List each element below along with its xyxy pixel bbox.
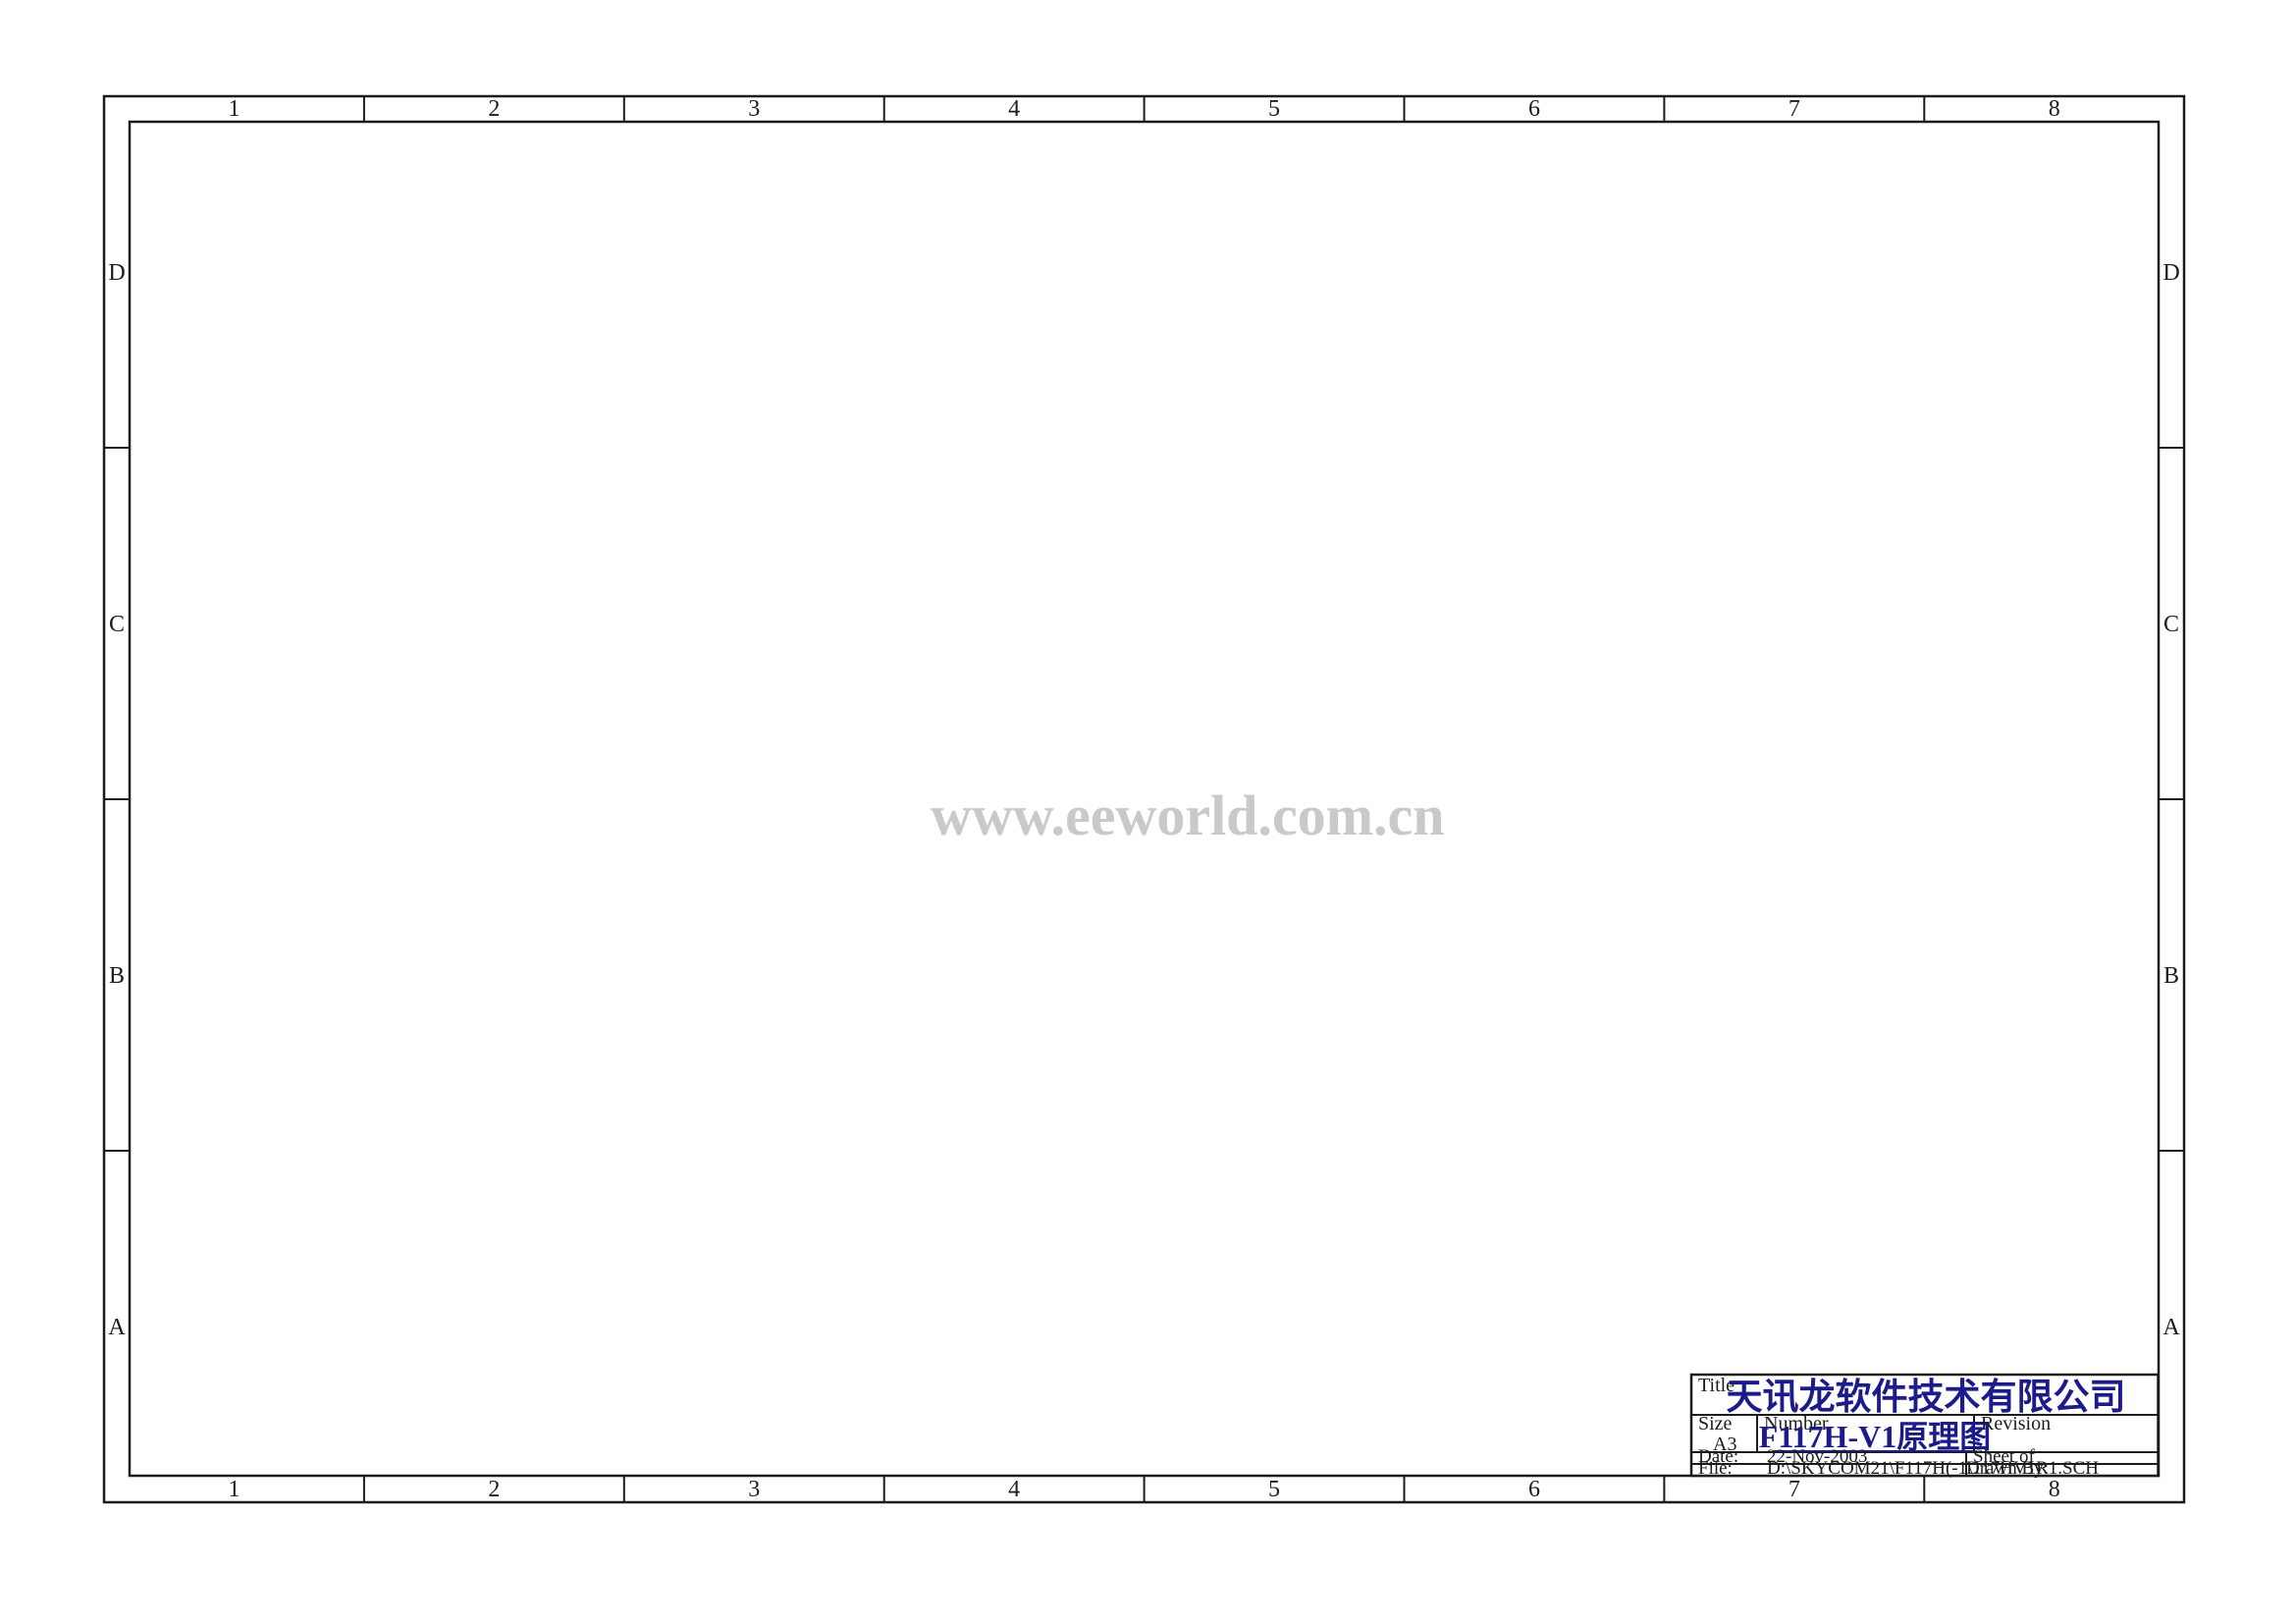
svg-text:天讯龙软件技术有限公司: 天讯龙软件技术有限公司 — [1727, 1377, 2126, 1418]
svg-text:B: B — [109, 963, 125, 989]
svg-text:1: 1 — [228, 1477, 240, 1502]
svg-text:D:\SKYCOM21\F117H(-1\117HV1R1.: D:\SKYCOM21\F117H(-1\117HV1R1.SCH — [1767, 1458, 2099, 1479]
svg-text:C: C — [2163, 612, 2179, 637]
svg-text:D: D — [108, 260, 125, 286]
svg-text:Revision: Revision — [1981, 1413, 2051, 1435]
svg-text:3: 3 — [748, 96, 760, 122]
sheet inner border frame — [130, 122, 2159, 1476]
svg-text:2: 2 — [488, 96, 500, 122]
sheet outer border frame — [104, 96, 2184, 1502]
svg-text:7: 7 — [1789, 96, 1800, 122]
svg-text:5: 5 — [1268, 96, 1280, 122]
svg-text:Size: Size — [1698, 1413, 1733, 1435]
svg-text:4: 4 — [1008, 96, 1020, 122]
svg-text:3: 3 — [748, 1477, 760, 1502]
svg-text:1: 1 — [228, 96, 240, 122]
svg-text:2: 2 — [488, 1477, 500, 1502]
svg-text:6: 6 — [1528, 96, 1540, 122]
svg-text:A: A — [2163, 1315, 2180, 1340]
svg-text:B: B — [2163, 963, 2179, 989]
svg-text:C: C — [109, 612, 125, 637]
svg-text:7: 7 — [1789, 1477, 1800, 1502]
svg-text:8: 8 — [2049, 1477, 2060, 1502]
svg-text:5: 5 — [1268, 1477, 1280, 1502]
svg-text:6: 6 — [1528, 1477, 1540, 1502]
svg-text:8: 8 — [2049, 96, 2060, 122]
svg-text:D: D — [2163, 260, 2179, 286]
svg-text:File:: File: — [1698, 1458, 1733, 1479]
title block frame — [1691, 1375, 2159, 1476]
svg-text:www.eeworld.com.cn: www.eeworld.com.cn — [931, 784, 1445, 847]
svg-text:4: 4 — [1008, 1477, 1020, 1502]
svg-text:Drawn By:: Drawn By: — [1966, 1458, 2049, 1479]
column tick dividers — [363, 96, 365, 122]
svg-text:A: A — [108, 1315, 126, 1340]
